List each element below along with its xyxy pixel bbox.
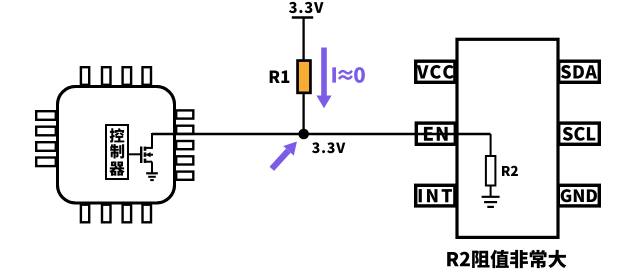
MCU body border <box>58 87 175 204</box>
wire: EN net drop to R2 <box>490 134 492 157</box>
3.3V supply rail bar <box>292 16 313 19</box>
IC body <box>457 39 558 237</box>
IC internal ground <box>482 197 500 207</box>
internal MOSFET <box>141 133 153 173</box>
controller block box <box>106 125 128 179</box>
MCU internal ground <box>146 173 158 180</box>
MCU bottom pins <box>81 205 151 223</box>
node: 3.3V junction <box>298 129 309 140</box>
wire: main 3.3V net (MOSFET drain to EN and R2) <box>152 133 491 136</box>
pin VCC <box>416 61 455 82</box>
resistor R1 <box>298 61 311 93</box>
wire: R2 to ground <box>490 187 492 197</box>
controller block label 控制器 <box>109 128 124 176</box>
current arrow I≈0 <box>316 48 331 109</box>
pin GND <box>558 185 599 206</box>
MCU package body <box>58 87 175 204</box>
pointer arrow to node <box>272 142 297 169</box>
wire: controller to MOSFET gate <box>129 153 141 155</box>
pin INT <box>416 185 455 206</box>
label 3.3V at node <box>312 142 345 153</box>
wire: rail to R1 <box>302 18 304 62</box>
MCU top pins <box>81 67 151 85</box>
MCU left pins <box>36 111 56 166</box>
pin EN <box>416 123 455 144</box>
resistor R2 <box>486 156 496 186</box>
label R1 <box>270 70 290 83</box>
wire: R1 to node <box>302 94 304 134</box>
label I≈0 <box>332 67 365 83</box>
MCU right pins <box>176 110 193 179</box>
pin SDA <box>559 61 600 82</box>
caption R2阻值非常大 <box>447 250 566 268</box>
pin SCL <box>559 123 600 144</box>
label 3.3V supply <box>289 2 323 13</box>
label R2 <box>502 166 518 176</box>
